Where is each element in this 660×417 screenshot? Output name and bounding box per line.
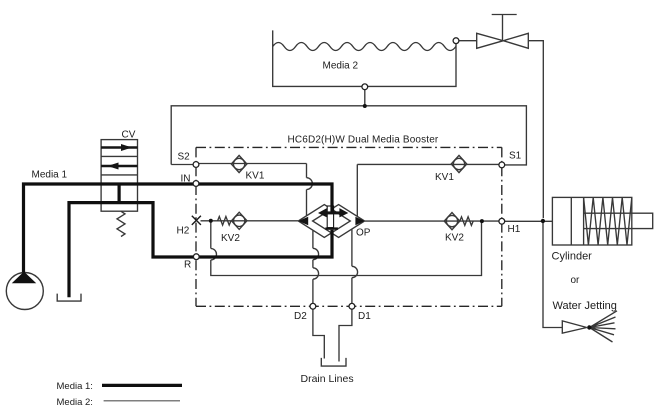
svg-text:D2: D2	[294, 311, 307, 322]
svg-text:KV1: KV1	[435, 172, 454, 183]
svg-text:KV2: KV2	[221, 233, 240, 244]
svg-text:Media 1: Media 1	[32, 170, 68, 181]
svg-text:H1: H1	[508, 224, 521, 235]
svg-text:H2: H2	[177, 226, 190, 237]
svg-text:Drain Lines: Drain Lines	[301, 373, 354, 385]
svg-text:Media 1:: Media 1:	[57, 381, 93, 392]
svg-text:IN: IN	[181, 174, 191, 185]
svg-text:D1: D1	[358, 311, 371, 322]
svg-text:R: R	[184, 260, 191, 271]
svg-text:HC6D2(H)W Dual Media Booster: HC6D2(H)W Dual Media Booster	[288, 135, 439, 146]
svg-text:KV2: KV2	[445, 233, 464, 244]
svg-text:OP: OP	[356, 228, 371, 239]
svg-text:S2: S2	[178, 152, 191, 163]
svg-text:or: or	[571, 275, 581, 286]
svg-text:Cylinder: Cylinder	[552, 251, 593, 263]
svg-text:Media 2: Media 2	[323, 61, 359, 72]
svg-text:KV1: KV1	[246, 170, 265, 181]
svg-text:Media 2:: Media 2:	[57, 397, 93, 408]
svg-text:S1: S1	[509, 150, 522, 161]
svg-text:CV: CV	[122, 130, 136, 141]
svg-text:Water Jetting: Water Jetting	[553, 300, 617, 312]
